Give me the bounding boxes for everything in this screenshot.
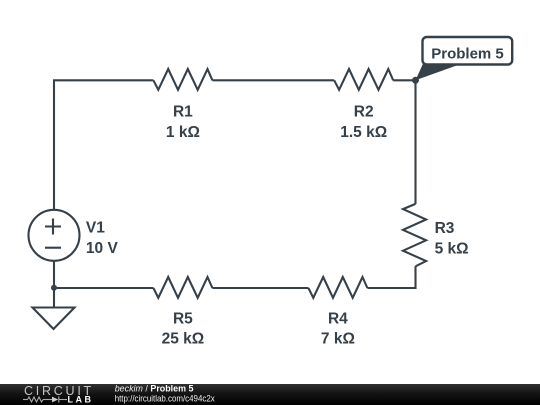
- svg-text:7 kΩ: 7 kΩ: [321, 331, 355, 348]
- svg-text:25 kΩ: 25 kΩ: [162, 331, 205, 348]
- svg-text:R3: R3: [435, 220, 455, 237]
- svg-text:http://circuitlab.com/c494c2x: http://circuitlab.com/c494c2x: [115, 394, 215, 404]
- svg-text:R5: R5: [173, 311, 193, 328]
- svg-text:LAB: LAB: [68, 395, 92, 405]
- svg-text:R4: R4: [328, 311, 348, 328]
- svg-text:R1: R1: [173, 103, 193, 120]
- svg-text:beckim / Problem 5: beckim / Problem 5: [115, 384, 194, 394]
- svg-text:10 V: 10 V: [86, 240, 119, 257]
- svg-text:1 kΩ: 1 kΩ: [166, 124, 200, 141]
- svg-text:5 kΩ: 5 kΩ: [435, 240, 469, 257]
- svg-text:1.5 kΩ: 1.5 kΩ: [340, 124, 387, 141]
- svg-text:Problem 5: Problem 5: [431, 45, 504, 62]
- svg-text:V1: V1: [86, 219, 105, 236]
- svg-text:R2: R2: [354, 103, 374, 120]
